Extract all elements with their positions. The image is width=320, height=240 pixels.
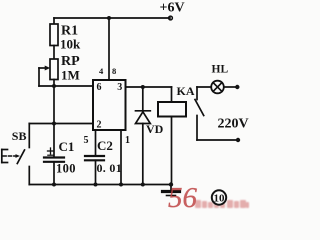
- svg-text:1: 1: [125, 135, 130, 146]
- svg-text:56: 56: [168, 182, 198, 214]
- svg-text:VD: VD: [146, 122, 164, 136]
- svg-text:+6V: +6V: [160, 1, 185, 16]
- svg-text:10: 10: [214, 193, 226, 205]
- svg-text:KA: KA: [177, 84, 195, 98]
- svg-text:SB: SB: [12, 129, 27, 143]
- svg-text:5: 5: [84, 135, 89, 146]
- svg-text:C1: C1: [59, 139, 75, 154]
- svg-text:3: 3: [117, 82, 122, 93]
- svg-text:100: 100: [56, 162, 76, 176]
- svg-text:HL: HL: [212, 64, 229, 76]
- svg-text:10k: 10k: [60, 37, 81, 52]
- svg-text:0. 01: 0. 01: [97, 161, 123, 175]
- svg-text:1M: 1M: [61, 68, 80, 83]
- svg-text:220V: 220V: [218, 117, 249, 132]
- svg-text:C2: C2: [97, 138, 113, 153]
- svg-text:8: 8: [112, 66, 116, 76]
- svg-text:6: 6: [97, 82, 102, 93]
- svg-text:2: 2: [97, 120, 102, 131]
